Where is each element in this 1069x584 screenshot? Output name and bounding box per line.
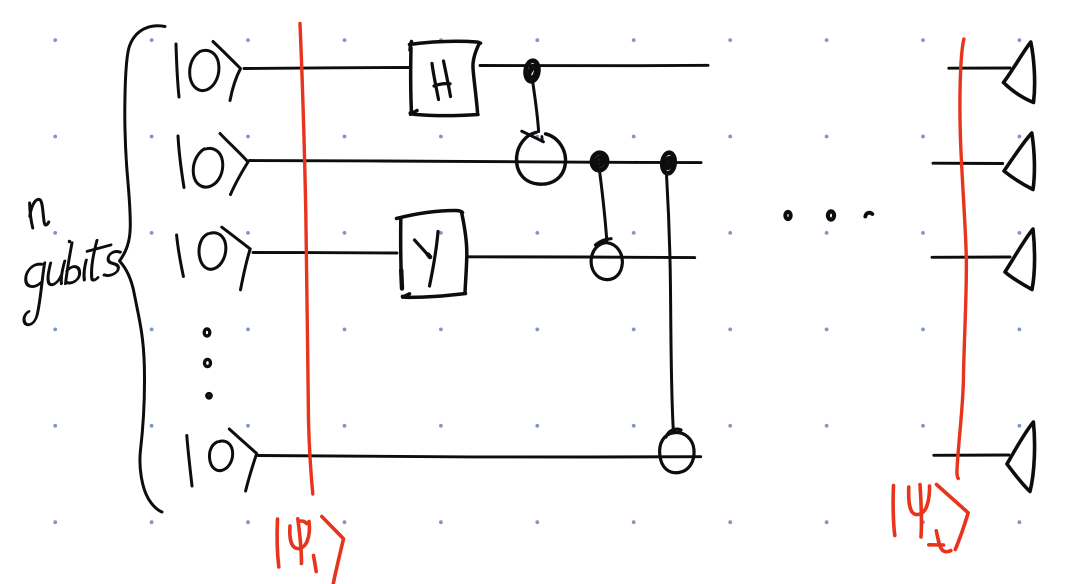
wire qubit3 left segment [253, 251, 397, 254]
barrier psit red line [957, 39, 966, 479]
brace n-qubit register [120, 26, 166, 512]
CNOT2 vertical link [600, 171, 607, 241]
measurement qubit1 [1004, 42, 1035, 103]
CNOT3 vertical link [667, 175, 674, 434]
CNOT3 control on qubit2 [661, 152, 676, 174]
wire qubit4 far-right segment [934, 454, 1009, 457]
barrier psi1 red line [300, 24, 313, 495]
wire qubit1 left segment [244, 68, 410, 69]
CNOT1 vertical link [533, 83, 539, 132]
gate Y label [415, 232, 439, 287]
gate H box [410, 41, 481, 115]
CNOT3 target on qubit4 [660, 429, 694, 473]
wire qubit2 far-right segment [933, 162, 1003, 165]
ellipsis dots horizontal continuation [785, 211, 872, 219]
wire qubit3 right segment [467, 255, 695, 259]
ellipsis dots vertical qubits continuation [204, 329, 211, 398]
CNOT1 target on qubit2 [517, 131, 566, 184]
wire qubit2 [250, 161, 702, 163]
ket |0> qubit 1 [176, 42, 241, 101]
ket |0> qubit 4 [187, 429, 257, 491]
wire qubit1 right segment [480, 64, 708, 67]
ket |0> qubit 3 [177, 227, 251, 290]
ket |0> qubit 2 [178, 134, 248, 195]
wire qubit4 [258, 456, 701, 458]
wire qubit1 far-right segment [949, 67, 1010, 70]
measurement qubit3 [1005, 229, 1035, 290]
gate H label [432, 61, 451, 100]
label n qubits [21, 198, 122, 326]
CNOT2 control on qubit2 [590, 152, 608, 172]
gate Y box [397, 211, 467, 298]
wire qubit3 far-right segment [932, 256, 1010, 259]
CNOT2 target on qubit3 [591, 239, 622, 280]
measurement qubit4 [1007, 422, 1035, 492]
CNOT1 control on qubit1 [524, 60, 539, 82]
label psi1 ket [277, 517, 343, 584]
measurement qubit2 [1004, 133, 1034, 190]
label psit ket [893, 485, 968, 552]
